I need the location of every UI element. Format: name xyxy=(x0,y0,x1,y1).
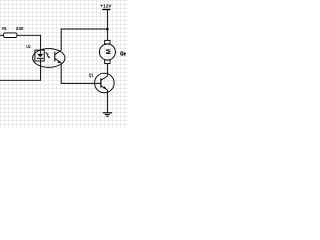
wire: Q1 emitter to ground xyxy=(106,90,108,112)
junction: collector wire to +12V line xyxy=(106,28,109,31)
wire: U1 collector up and right to +12V rail xyxy=(61,29,107,50)
svg-text:330: 330 xyxy=(16,26,24,31)
svg-text:U1: U1 xyxy=(26,44,31,49)
svg-text:Ge: Ge xyxy=(120,52,125,58)
wire: +12V rail down to motor xyxy=(106,10,108,41)
svg-text:+12V: +12V xyxy=(100,4,111,9)
LED anode stub inside U1 xyxy=(40,50,42,54)
svg-text:M: M xyxy=(106,49,113,54)
light arrow 2 xyxy=(47,55,50,58)
light arrow 1 xyxy=(45,52,48,55)
LED box inside U1 xyxy=(35,50,44,61)
phototransistor emitter diagonal with arrow xyxy=(55,59,61,64)
motor top terminal xyxy=(105,40,110,44)
motor bottom terminal xyxy=(105,60,110,63)
wire: R1 to U1 anode (corner at 40.6,35.3) xyxy=(17,35,41,50)
phototransistor collector diagonal xyxy=(55,50,61,54)
LED triangle xyxy=(37,54,43,57)
resistor R1 body xyxy=(4,33,17,38)
LED cathode bar xyxy=(37,57,44,59)
wire: U1 emitter down and right to Q1 base xyxy=(61,63,101,83)
svg-text:Q1: Q1 xyxy=(89,72,94,77)
Q1 collector diagonal xyxy=(101,76,108,80)
LED cathode stub xyxy=(40,59,42,61)
wire: left lead into R1 xyxy=(0,34,4,36)
optocoupler U1 outline ellipse xyxy=(33,49,65,68)
transistor Q1 circle xyxy=(95,73,115,93)
+12V supply bar xyxy=(102,9,110,11)
Q1 emitter diagonal with arrow xyxy=(101,86,108,90)
Q1 base bar xyxy=(100,78,102,87)
wire: motor to Q1 collector xyxy=(106,64,108,77)
phototransistor base line xyxy=(54,52,56,62)
ground symbol xyxy=(103,113,112,117)
wire: U1 cathode down and out to left edge xyxy=(0,61,41,80)
motor M body circle xyxy=(99,44,115,60)
svg-text:R1: R1 xyxy=(2,26,7,31)
